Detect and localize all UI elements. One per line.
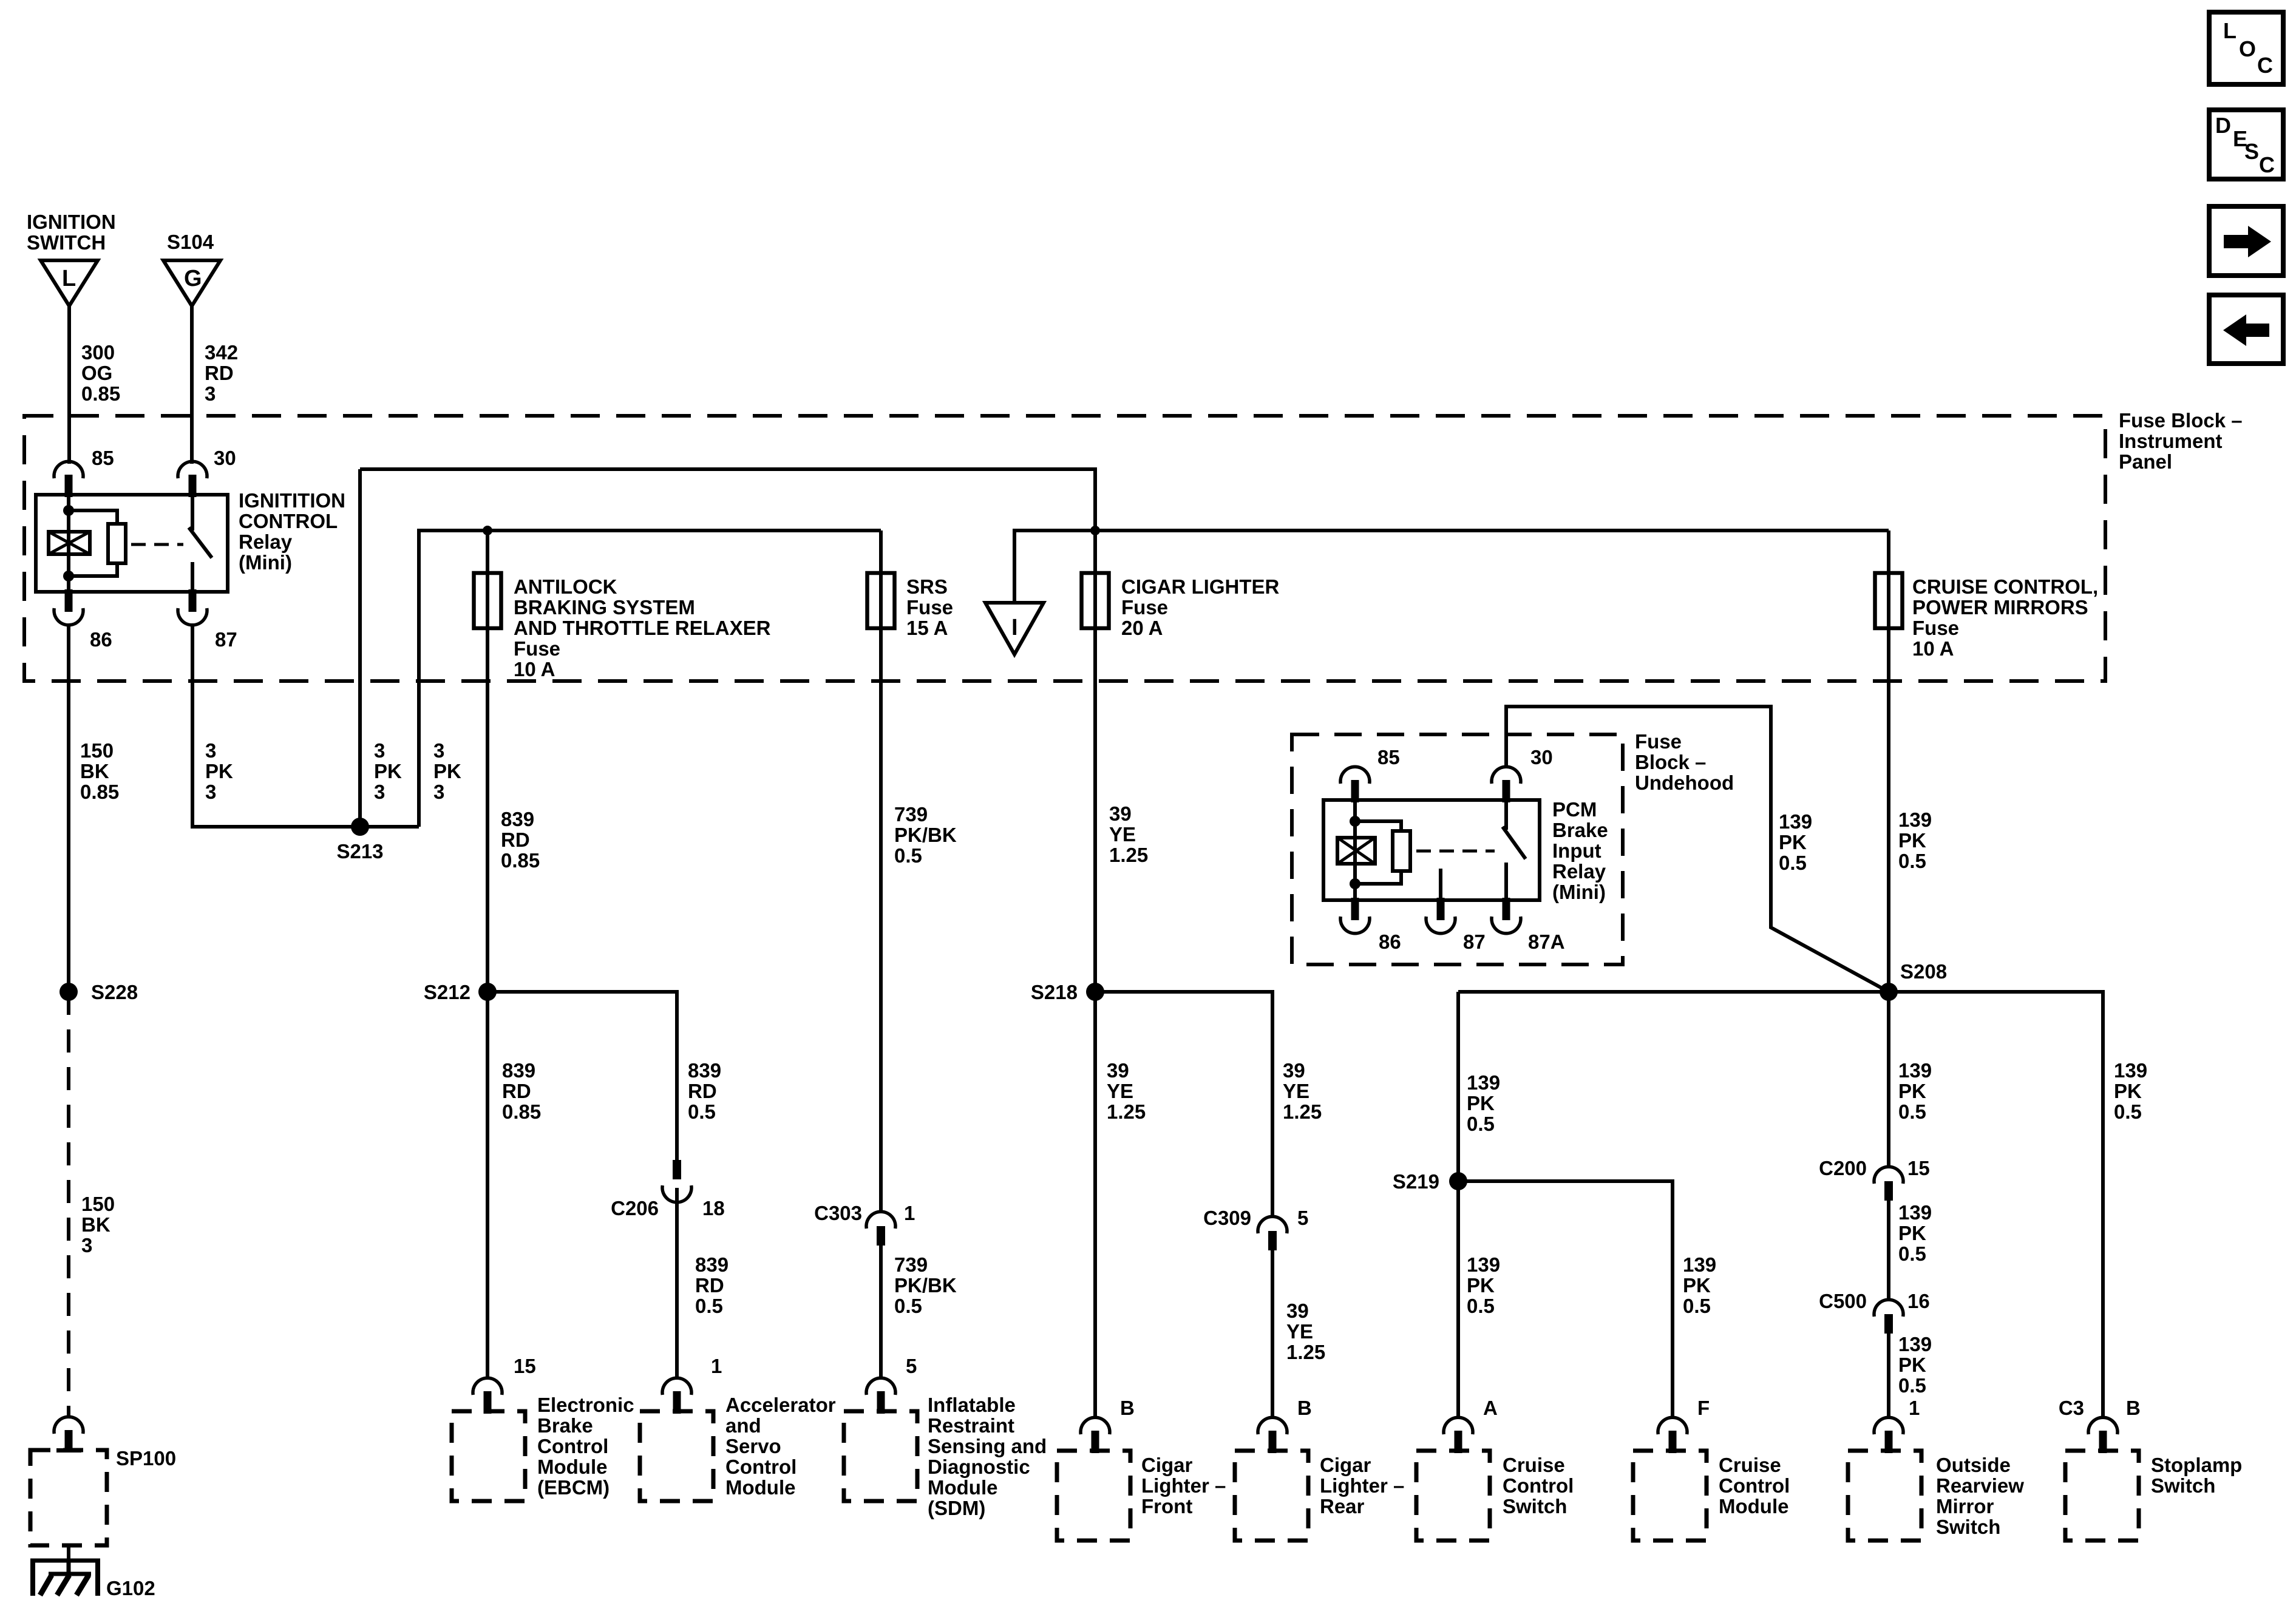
cruise control module pin F xyxy=(1658,1417,1687,1434)
Stoplamp Switch box xyxy=(2065,1451,2139,1541)
svg-text:Instrument: Instrument xyxy=(2119,430,2223,452)
svg-text:RD: RD xyxy=(502,1080,531,1102)
svg-text:CONTROL: CONTROL xyxy=(239,510,338,532)
SDM pin 5 xyxy=(866,1378,895,1395)
wire C303 to SDM xyxy=(879,1246,883,1379)
svg-text:YE: YE xyxy=(1109,823,1136,846)
svg-text:RD: RD xyxy=(695,1274,724,1297)
svg-text:0.5: 0.5 xyxy=(1683,1295,1711,1317)
svg-text:3: 3 xyxy=(81,1234,92,1256)
svg-text:0.85: 0.85 xyxy=(501,849,540,872)
svg-text:39: 39 xyxy=(1109,802,1132,825)
svg-text:Panel: Panel xyxy=(2119,450,2172,473)
svg-text:18: 18 xyxy=(702,1197,725,1219)
splice S219 xyxy=(1449,1172,1467,1190)
svg-text:0.5: 0.5 xyxy=(1898,1100,1926,1123)
svg-text:S208: S208 xyxy=(1900,960,1947,983)
right arrow nav box xyxy=(2209,206,2283,276)
svg-text:0.5: 0.5 xyxy=(1898,850,1926,872)
wire C500 to ORVM switch xyxy=(1887,1334,1890,1419)
svg-text:0.5: 0.5 xyxy=(695,1295,723,1317)
relay coil box with X xyxy=(49,532,90,554)
svg-text:0.5: 0.5 xyxy=(1898,1242,1926,1265)
svg-text:Cigar: Cigar xyxy=(1320,1454,1371,1476)
svg-text:85: 85 xyxy=(92,447,114,469)
svg-text:839: 839 xyxy=(695,1253,729,1276)
svg-text:B: B xyxy=(1297,1397,1312,1419)
PCM relay pin 87A xyxy=(1492,917,1521,934)
svg-text:PK: PK xyxy=(1683,1274,1711,1297)
relay resistor branch xyxy=(69,510,117,524)
junction ABS fuse feed xyxy=(483,526,492,535)
PCM relay coil box with X xyxy=(1337,838,1375,864)
svg-text:Undehood: Undehood xyxy=(1635,771,1734,794)
svg-text:C303: C303 xyxy=(814,1202,862,1224)
svg-text:PK/BK: PK/BK xyxy=(894,1274,957,1297)
PCM relay pin 85 xyxy=(1340,767,1370,784)
svg-text:87: 87 xyxy=(215,628,237,651)
svg-text:Inflatable: Inflatable xyxy=(928,1394,1016,1416)
relay pin 30 xyxy=(178,461,207,478)
svg-text:PK: PK xyxy=(2114,1080,2142,1102)
cigar lighter rear pin B xyxy=(1258,1417,1287,1434)
svg-text:Electronic: Electronic xyxy=(537,1394,634,1416)
svg-text:87A: 87A xyxy=(1528,931,1565,953)
svg-text:0.5: 0.5 xyxy=(688,1100,716,1123)
svg-text:39: 39 xyxy=(1286,1300,1309,1322)
splice S218 xyxy=(1086,983,1104,1001)
svg-text:Relay: Relay xyxy=(1552,860,1606,883)
wire 3 PK riser to second bus xyxy=(419,531,881,827)
svg-text:839: 839 xyxy=(501,808,534,830)
Cigar Lighter Rear box xyxy=(1235,1451,1308,1541)
wire 3 PK from relay pin 87 down and right to S213 xyxy=(192,624,419,827)
svg-text:1.25: 1.25 xyxy=(1286,1341,1325,1363)
svg-text:YE: YE xyxy=(1283,1080,1309,1102)
accelerator module pin 1 xyxy=(662,1378,691,1395)
PCM relay resistor branch xyxy=(1355,821,1401,831)
svg-text:PK: PK xyxy=(433,760,461,782)
svg-text:Sensing and: Sensing and xyxy=(928,1435,1047,1457)
Cruise Control Switch box xyxy=(1416,1451,1490,1541)
svg-text:G: G xyxy=(184,266,202,291)
svg-text:10 A: 10 A xyxy=(1912,637,1954,660)
svg-text:IGNITION: IGNITION xyxy=(27,211,116,233)
svg-text:F: F xyxy=(1697,1397,1710,1419)
wire S212 branch to C206 xyxy=(487,992,677,1160)
svg-text:Fuse: Fuse xyxy=(1635,730,1682,753)
splice pack SP100 pin xyxy=(54,1417,83,1434)
PCM relay pin 30 xyxy=(1492,767,1521,784)
svg-text:(Mini): (Mini) xyxy=(1552,881,1606,903)
svg-text:Outside: Outside xyxy=(1936,1454,2011,1476)
svg-text:Fuse Block –: Fuse Block – xyxy=(2119,409,2243,432)
svg-text:S218: S218 xyxy=(1031,981,1078,1003)
relay actuator dashed link xyxy=(131,543,183,546)
svg-text:(SDM): (SDM) xyxy=(928,1497,985,1519)
svg-text:B: B xyxy=(2126,1397,2141,1419)
svg-text:PK: PK xyxy=(1467,1274,1495,1297)
svg-text:139: 139 xyxy=(2114,1059,2147,1082)
svg-text:Cigar: Cigar xyxy=(1141,1454,1193,1476)
svg-text:3: 3 xyxy=(374,781,385,803)
relay coil node top xyxy=(63,505,74,516)
svg-text:0.5: 0.5 xyxy=(894,1295,922,1317)
svg-text:D: D xyxy=(2215,113,2231,138)
second bus wire right section to cruise fuse xyxy=(1014,531,1889,603)
left arrow nav box xyxy=(2209,295,2283,364)
SP100 dashed box xyxy=(30,1450,107,1545)
svg-text:C206: C206 xyxy=(611,1197,659,1219)
svg-text:Block –: Block – xyxy=(1635,751,1706,773)
svg-text:342: 342 xyxy=(205,341,238,364)
svg-text:0.5: 0.5 xyxy=(1779,852,1807,874)
wire S219 to cruise control switch xyxy=(1456,1181,1460,1419)
svg-text:RD: RD xyxy=(688,1080,717,1102)
wire 3 PK riser from S213 to top bus xyxy=(358,469,362,827)
svg-text:1: 1 xyxy=(904,1202,915,1224)
svg-text:Accelerator: Accelerator xyxy=(725,1394,836,1416)
inline connector C309 pin 5 xyxy=(1258,1216,1287,1233)
svg-text:39: 39 xyxy=(1107,1059,1129,1082)
inline connector C500 pin 16 xyxy=(1874,1300,1903,1317)
svg-text:C: C xyxy=(2259,152,2275,177)
svg-text:Fuse: Fuse xyxy=(906,596,953,619)
Accelerator and Servo Control Module box xyxy=(640,1411,713,1501)
svg-text:Control: Control xyxy=(725,1456,796,1478)
svg-text:Module: Module xyxy=(1719,1495,1788,1517)
svg-text:L: L xyxy=(2223,18,2237,43)
svg-text:5: 5 xyxy=(906,1355,917,1377)
svg-text:Module: Module xyxy=(725,1476,795,1499)
splice S212 xyxy=(478,983,497,1001)
svg-text:30: 30 xyxy=(1530,746,1553,768)
svg-text:15 A: 15 A xyxy=(906,617,948,639)
dashed wire 150 BK from S228 to SP100 xyxy=(67,992,70,1417)
relay pin 85 xyxy=(54,461,83,478)
svg-text:Servo: Servo xyxy=(725,1435,781,1457)
svg-text:RD: RD xyxy=(205,362,234,384)
svg-text:PK/BK: PK/BK xyxy=(894,824,957,846)
svg-text:Fuse: Fuse xyxy=(1121,596,1168,619)
Fuse Block - Instrument Panel dashed box xyxy=(24,416,2105,681)
cigar lighter fuse xyxy=(1093,531,1097,992)
svg-text:300: 300 xyxy=(81,341,115,364)
svg-text:Relay: Relay xyxy=(239,531,293,553)
svg-text:SRS: SRS xyxy=(906,575,948,598)
wire C200 to C500 xyxy=(1887,1201,1890,1300)
svg-text:PK: PK xyxy=(1898,1354,1926,1376)
svg-text:SP100: SP100 xyxy=(116,1447,176,1470)
relay pin 87 xyxy=(178,608,207,625)
svg-text:139: 139 xyxy=(1467,1071,1500,1094)
Outside Rearview Mirror Switch box xyxy=(1848,1451,1921,1541)
PCM relay switch xyxy=(1504,800,1508,830)
svg-text:139: 139 xyxy=(1683,1253,1716,1276)
relay coil node bottom xyxy=(63,571,74,581)
wire C309 to cigar lighter rear xyxy=(1271,1250,1274,1419)
wire SP100 to ground xyxy=(67,1545,70,1562)
svg-text:Lighter –: Lighter – xyxy=(1320,1474,1404,1497)
svg-text:739: 739 xyxy=(894,803,928,825)
svg-text:Module: Module xyxy=(537,1456,607,1478)
svg-text:CIGAR LIGHTER: CIGAR LIGHTER xyxy=(1121,575,1279,598)
svg-text:5: 5 xyxy=(1297,1207,1308,1229)
Inflatable Restraint SDM box xyxy=(844,1411,917,1501)
svg-text:3: 3 xyxy=(205,382,216,405)
svg-text:Rearview: Rearview xyxy=(1936,1474,2024,1497)
svg-text:15: 15 xyxy=(1907,1157,1930,1179)
svg-text:BK: BK xyxy=(80,760,109,782)
svg-text:Brake: Brake xyxy=(1552,819,1608,841)
svg-text:Diagnostic: Diagnostic xyxy=(928,1456,1030,1478)
svg-text:0.5: 0.5 xyxy=(1467,1295,1495,1317)
inline connector C206 pin 18 xyxy=(673,1160,681,1179)
wire C206 to accelerator module xyxy=(675,1188,679,1379)
svg-text:PK: PK xyxy=(1467,1092,1495,1114)
svg-text:PK: PK xyxy=(374,760,402,782)
svg-text:139: 139 xyxy=(1898,808,1932,831)
wire S208 to C200 xyxy=(1887,992,1890,1167)
svg-text:0.5: 0.5 xyxy=(1467,1113,1495,1135)
svg-text:3: 3 xyxy=(433,781,444,803)
inline connector C200 pin 15 xyxy=(1874,1167,1903,1184)
SRS fuse xyxy=(879,531,883,1212)
svg-text:Fuse: Fuse xyxy=(1912,617,1959,639)
svg-text:SWITCH: SWITCH xyxy=(27,231,106,254)
svg-text:S212: S212 xyxy=(424,981,470,1003)
wire 150 BK from relay pin 86 to S228 xyxy=(67,624,70,992)
splice S213 xyxy=(351,818,369,836)
svg-text:YE: YE xyxy=(1286,1320,1313,1343)
svg-text:1: 1 xyxy=(1909,1397,1920,1419)
S208 horizontal wire xyxy=(1458,992,2103,1419)
svg-text:150: 150 xyxy=(80,739,114,762)
svg-text:Mirror: Mirror xyxy=(1936,1495,1994,1517)
svg-text:and: and xyxy=(725,1414,761,1437)
svg-text:150: 150 xyxy=(81,1193,115,1215)
svg-text:3: 3 xyxy=(433,739,444,762)
ORVM switch pin 1 xyxy=(1874,1417,1903,1434)
svg-text:C3: C3 xyxy=(2059,1397,2084,1419)
Fuse Block - Undehood dashed box xyxy=(1292,734,1623,964)
svg-text:Switch: Switch xyxy=(1503,1495,1567,1517)
svg-text:0.85: 0.85 xyxy=(81,382,120,405)
svg-text:139: 139 xyxy=(1898,1059,1932,1082)
svg-text:Front: Front xyxy=(1141,1495,1192,1517)
svg-text:1.25: 1.25 xyxy=(1109,844,1148,866)
PCM relay pin 86 xyxy=(1340,917,1370,934)
splice S208 xyxy=(1880,983,1898,1001)
svg-text:139: 139 xyxy=(1898,1201,1932,1224)
svg-text:(EBCM): (EBCM) xyxy=(537,1476,610,1499)
svg-text:20 A: 20 A xyxy=(1121,617,1163,639)
svg-text:AND THROTTLE RELAXER: AND THROTTLE RELAXER xyxy=(514,617,771,639)
svg-text:Control: Control xyxy=(1503,1474,1574,1497)
svg-text:C200: C200 xyxy=(1819,1157,1867,1179)
svg-text:0.5: 0.5 xyxy=(894,844,922,867)
DESC nav box xyxy=(2209,110,2283,179)
svg-text:15: 15 xyxy=(514,1355,536,1377)
svg-text:139: 139 xyxy=(1467,1253,1500,1276)
svg-text:Fuse: Fuse xyxy=(514,637,560,660)
svg-text:1.25: 1.25 xyxy=(1283,1100,1322,1123)
svg-text:PK: PK xyxy=(1779,831,1807,853)
svg-text:3: 3 xyxy=(205,781,216,803)
PCM relay coil line xyxy=(1353,800,1357,900)
svg-text:Control: Control xyxy=(1719,1474,1790,1497)
svg-text:3: 3 xyxy=(205,739,216,762)
SP100 T-bar xyxy=(56,1448,81,1453)
relay pin 86 xyxy=(54,608,83,625)
stoplamp switch pin C3 B xyxy=(2088,1417,2118,1434)
svg-text:1: 1 xyxy=(711,1355,722,1377)
svg-text:(Mini): (Mini) xyxy=(239,551,292,574)
svg-text:1.25: 1.25 xyxy=(1107,1100,1146,1123)
wire S218 branch to C309 xyxy=(1095,992,1272,1216)
svg-text:OG: OG xyxy=(81,362,112,384)
svg-text:C309: C309 xyxy=(1203,1207,1251,1229)
svg-text:Rear: Rear xyxy=(1320,1495,1365,1517)
wire 839 RD from S212 to EBCM xyxy=(486,992,489,1379)
svg-text:L: L xyxy=(62,266,76,291)
svg-text:BRAKING SYSTEM: BRAKING SYSTEM xyxy=(514,596,695,619)
svg-text:S228: S228 xyxy=(91,981,138,1003)
svg-text:S213: S213 xyxy=(336,840,383,863)
svg-text:87: 87 xyxy=(1463,931,1486,953)
Cruise Control Module box xyxy=(1633,1451,1707,1541)
svg-text:0.85: 0.85 xyxy=(80,781,119,803)
wire S219 branch to cruise control module xyxy=(1458,1181,1673,1419)
svg-text:ANTILOCK: ANTILOCK xyxy=(514,575,617,598)
svg-text:0.85: 0.85 xyxy=(502,1100,541,1123)
svg-text:Cruise: Cruise xyxy=(1503,1454,1565,1476)
svg-text:RD: RD xyxy=(501,829,530,851)
svg-text:Lighter –: Lighter – xyxy=(1141,1474,1226,1497)
svg-text:30: 30 xyxy=(214,447,236,469)
svg-text:139: 139 xyxy=(1898,1333,1932,1355)
svg-text:PK: PK xyxy=(1898,1080,1926,1102)
wire S208 to S219 xyxy=(1456,992,1460,1181)
wire from PCM relay pin 30 to S208 xyxy=(1506,707,1889,992)
splice S228 xyxy=(59,983,78,1001)
svg-text:A: A xyxy=(1483,1397,1498,1419)
LOC nav box xyxy=(2209,12,2283,84)
Electronic Brake Control Module box xyxy=(452,1411,525,1501)
svg-text:0.5: 0.5 xyxy=(1898,1374,1926,1397)
PCM brake input relay box xyxy=(1323,800,1540,900)
wire S218 to cigar lighter front xyxy=(1093,992,1097,1419)
I-feed triangle xyxy=(985,603,1044,654)
inline connector C303 pin 1 xyxy=(866,1212,895,1229)
svg-text:PK: PK xyxy=(1898,1222,1926,1244)
svg-text:0.5: 0.5 xyxy=(2114,1100,2142,1123)
relay coil line pin85-pin86 xyxy=(67,495,70,592)
PCM relay internal pin 87 stub xyxy=(1439,869,1442,900)
connector triangle L (ignition switch feed) xyxy=(41,260,98,306)
ABS / throttle relaxer fuse xyxy=(486,531,489,992)
svg-text:Switch: Switch xyxy=(1936,1516,2000,1538)
svg-text:O: O xyxy=(2239,36,2256,61)
svg-text:PK: PK xyxy=(1898,829,1926,852)
svg-text:Restraint: Restraint xyxy=(928,1414,1014,1437)
svg-text:CRUISE CONTROL,: CRUISE CONTROL, xyxy=(1912,575,2098,598)
svg-text:Switch: Switch xyxy=(2151,1474,2215,1497)
top bus wire to cigar lighter feed xyxy=(360,469,1095,531)
Cigar Lighter Front box xyxy=(1057,1451,1130,1541)
svg-text:S219: S219 xyxy=(1393,1170,1439,1193)
svg-text:POWER MIRRORS: POWER MIRRORS xyxy=(1912,596,2088,619)
cigar lighter front pin B xyxy=(1081,1417,1110,1434)
svg-text:739: 739 xyxy=(894,1253,928,1276)
ignition control relay box xyxy=(36,495,228,592)
wire 342 RD from triangle G to relay pin 30 xyxy=(190,306,194,464)
wire 300 OG from triangle L to relay pin 85 xyxy=(67,306,71,464)
junction cigar lighter feed xyxy=(1090,526,1100,535)
svg-text:39: 39 xyxy=(1283,1059,1305,1082)
svg-text:BK: BK xyxy=(81,1213,110,1236)
PCM relay actuator dashed link xyxy=(1416,850,1495,853)
svg-text:139: 139 xyxy=(1779,810,1812,833)
svg-text:PK: PK xyxy=(205,760,233,782)
svg-text:Brake: Brake xyxy=(537,1414,593,1437)
svg-text:Module: Module xyxy=(928,1476,997,1499)
svg-text:PCM: PCM xyxy=(1552,798,1597,821)
cruise control power mirrors fuse xyxy=(1887,531,1890,992)
connector triangle G (S104) xyxy=(163,260,220,306)
svg-text:Stoplamp: Stoplamp xyxy=(2151,1454,2242,1476)
svg-text:C500: C500 xyxy=(1819,1290,1867,1312)
svg-text:16: 16 xyxy=(1907,1290,1930,1312)
svg-text:IGNITITION: IGNITITION xyxy=(239,489,345,512)
cruise control switch pin A xyxy=(1444,1417,1473,1434)
svg-text:10 A: 10 A xyxy=(514,658,555,680)
svg-text:S: S xyxy=(2244,139,2259,164)
EBCM pin 15 xyxy=(473,1378,502,1395)
svg-text:YE: YE xyxy=(1107,1080,1133,1102)
ground G102 symbol xyxy=(30,1559,100,1563)
svg-text:C: C xyxy=(2257,53,2273,78)
PCM relay pin 87 xyxy=(1426,917,1455,934)
svg-text:839: 839 xyxy=(688,1059,721,1082)
svg-text:85: 85 xyxy=(1377,746,1400,768)
svg-text:Input: Input xyxy=(1552,839,1601,862)
svg-text:86: 86 xyxy=(1379,931,1401,953)
svg-text:I: I xyxy=(1011,615,1018,640)
svg-text:3: 3 xyxy=(374,739,385,762)
svg-text:G102: G102 xyxy=(106,1577,155,1599)
svg-text:S104: S104 xyxy=(167,231,214,253)
svg-text:B: B xyxy=(1120,1397,1135,1419)
svg-text:839: 839 xyxy=(502,1059,535,1082)
svg-text:Cruise: Cruise xyxy=(1719,1454,1781,1476)
svg-text:86: 86 xyxy=(90,628,112,651)
svg-text:Control: Control xyxy=(537,1435,608,1457)
relay switch pin30-pin87 xyxy=(191,495,194,531)
